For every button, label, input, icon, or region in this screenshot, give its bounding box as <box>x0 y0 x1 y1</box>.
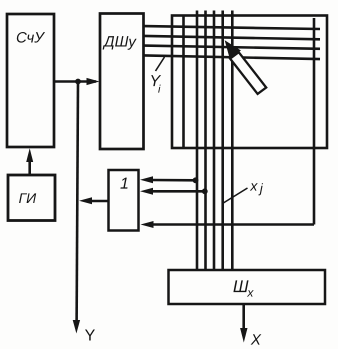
arrow X down from Шх <box>240 328 247 343</box>
wire СчУ to ДШу <box>54 80 96 83</box>
light pen shaft <box>230 52 266 94</box>
svg-text:СчУ: СчУ <box>16 30 45 47</box>
arrowheads <box>26 78 247 343</box>
wire: collector bus horizontal segment to gate 1 <box>150 223 314 226</box>
svg-text:х: х <box>246 286 254 300</box>
svg-text:ДШу: ДШу <box>102 34 137 51</box>
svg-text:x: x <box>249 178 258 194</box>
junction dot on СчУ-ДШу wire <box>75 79 81 85</box>
label Xj pointer <box>223 188 248 204</box>
svg-text:Y: Y <box>85 328 96 345</box>
arrow X1 wire into gate 1 <box>140 176 153 183</box>
label Yi <box>149 73 161 96</box>
wire Шх output <box>242 304 245 330</box>
screen outer rectangle <box>172 16 327 149</box>
wire Y counter output vertical <box>77 82 78 324</box>
arrow Y down <box>73 320 80 334</box>
wire Y3 <box>144 46 320 49</box>
arrow into ДШу <box>87 78 100 85</box>
wire X2 to gate 1 <box>151 190 205 193</box>
wire X1 to gate 1 <box>151 179 196 182</box>
light pen head <box>227 43 240 57</box>
arrow from gate 1 onto Y line <box>79 197 92 204</box>
wire X5 <box>231 11 234 271</box>
svg-text:X: X <box>250 332 262 349</box>
arrow X2 wire into gate 1 <box>140 188 153 195</box>
wire X4 <box>221 11 224 271</box>
label Xj <box>249 178 264 196</box>
wire Y4 <box>144 55 320 59</box>
screen inner-left edge line <box>182 16 185 149</box>
wire X2 <box>204 11 207 271</box>
gate 1 (OR) <box>109 170 139 231</box>
wire gate 1 to Y line <box>90 200 109 203</box>
bus Шх block <box>169 270 326 304</box>
arrow ГИ up into СчУ <box>26 148 33 162</box>
block ДШу (decoder) <box>100 14 144 150</box>
label Yi pointer <box>156 57 165 71</box>
svg-text:ГИ: ГИ <box>19 190 38 206</box>
block СчУ (Y counter) <box>7 14 54 147</box>
block ГИ (pulse generator) <box>8 175 55 221</box>
wire X1 (vertical) <box>196 11 199 271</box>
arrow collector bus into gate 1 <box>141 221 154 228</box>
wire ГИ to СчУ <box>28 160 31 175</box>
junction dot X2 <box>202 188 208 194</box>
wire Y1 (horizontal from decoder) <box>144 26 320 29</box>
svg-text:1: 1 <box>120 176 129 193</box>
wire: right collector bus vertical segment <box>313 18 316 225</box>
junction dot X1 <box>193 177 199 183</box>
wire X3 <box>213 11 216 271</box>
wire Y2 <box>144 36 320 39</box>
